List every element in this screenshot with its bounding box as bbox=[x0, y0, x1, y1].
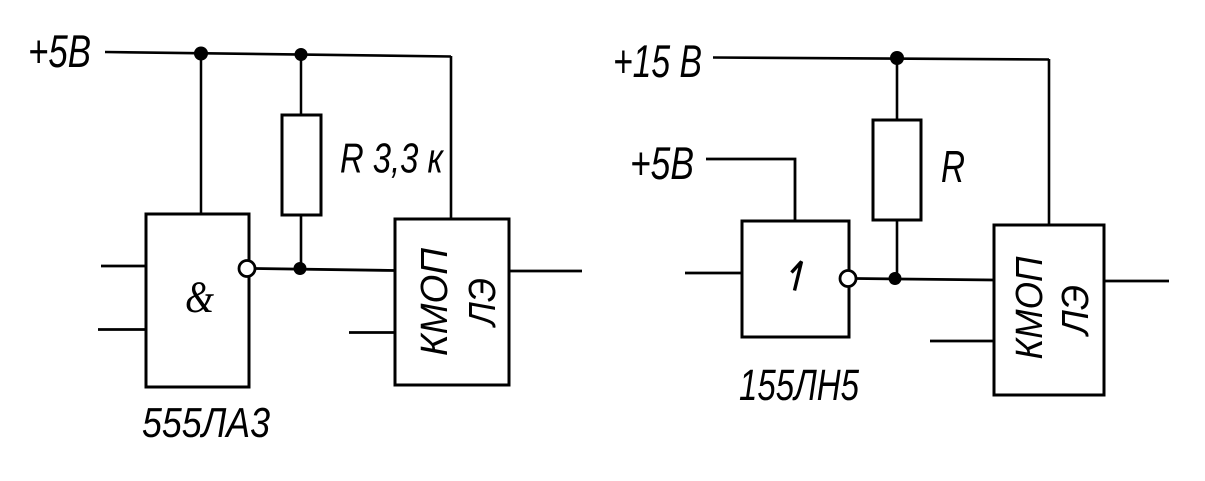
wire: CMOS output (left box) bbox=[510, 270, 582, 273]
wire: +15V rail horizontal bbox=[713, 58, 1049, 60]
CMOS logic element box (right) bbox=[994, 225, 1104, 395]
wire: inverter output to CMOS input (right) bbox=[856, 279, 994, 281]
label КМОП (left box, rotated) bbox=[414, 248, 456, 356]
resistor R body (right) bbox=[873, 120, 921, 220]
part label 555ЛА3 bbox=[142, 399, 270, 446]
svg-text:ЛЭ: ЛЭ bbox=[462, 278, 504, 329]
label ЛЭ (left box, rotated) bbox=[462, 278, 504, 329]
power label +15 V bbox=[613, 35, 702, 87]
gate symbol & bbox=[185, 272, 214, 322]
wire: +15V rail drop to CMOS box top (right) bbox=[1048, 59, 1051, 225]
wire: CMOS second input stub (right box) bbox=[930, 340, 994, 343]
gate symbol 1 bbox=[792, 262, 802, 291]
svg-text:+5В: +5В bbox=[28, 25, 91, 77]
wire: resistor bottom to output node bbox=[300, 215, 303, 268]
junction: rail / gate supply branch bbox=[194, 47, 208, 61]
label ЛЭ (right box, rotated) bbox=[1055, 285, 1097, 338]
svg-text:555ЛА3: 555ЛА3 bbox=[142, 399, 270, 446]
wire: gate input 1 bbox=[101, 265, 146, 268]
value label R (right) bbox=[941, 141, 965, 192]
inverter output inversion bubble bbox=[840, 271, 856, 287]
wire: CMOS second input stub (left box) bbox=[349, 331, 395, 334]
svg-text:&: & bbox=[185, 272, 214, 322]
part label 155ЛН5 bbox=[739, 361, 859, 410]
gate DD2 155ЛН5 inverter body bbox=[742, 221, 849, 337]
gate DD1 555ЛА3 NAND body bbox=[146, 214, 249, 387]
svg-text:155ЛН5: 155ЛН5 bbox=[739, 361, 859, 410]
junction: rail / resistor branch bbox=[295, 48, 308, 61]
wire: +5V to gate supply (horizontal + drop) bbox=[706, 159, 795, 221]
value label R 3,3 к bbox=[340, 134, 445, 181]
CMOS logic element box (left) bbox=[395, 219, 509, 385]
wire: gate output to CMOS input bbox=[255, 269, 395, 271]
wire: +5V rail right drop to CMOS box top bbox=[450, 56, 453, 219]
wire: rail down to gate top bbox=[200, 53, 203, 215]
junction: output node / resistor bottom (right) bbox=[889, 272, 902, 285]
wire: inverter input bbox=[685, 272, 742, 275]
resistor R 3,3k body bbox=[282, 115, 321, 215]
svg-text:КМОП: КМОП bbox=[414, 248, 456, 356]
power label +5V (left) bbox=[28, 25, 91, 77]
wire: +5V rail horizontal bbox=[105, 52, 451, 57]
label КМОП (right box, rotated) bbox=[1009, 256, 1051, 359]
svg-text:R 3,3 к: R 3,3 к bbox=[340, 134, 445, 181]
wire: rail to resistor top (right) bbox=[896, 58, 899, 120]
wire: gate input 2 bbox=[98, 328, 146, 331]
wire: CMOS output (right box) bbox=[1104, 280, 1169, 283]
wire: rail to resistor top bbox=[300, 54, 303, 115]
svg-text:+5В: +5В bbox=[630, 137, 694, 189]
svg-text:КМОП: КМОП bbox=[1009, 256, 1051, 359]
wire: resistor bottom to output node (right) bbox=[896, 220, 899, 278]
gate output inversion bubble bbox=[239, 261, 255, 277]
junction: output node / resistor bottom bbox=[294, 262, 307, 275]
junction: +15V rail / resistor branch bbox=[890, 51, 904, 65]
svg-text:R: R bbox=[941, 141, 965, 192]
svg-text:+15 В: +15 В bbox=[613, 35, 702, 87]
power label +5V (right) bbox=[630, 137, 694, 189]
svg-text:ЛЭ: ЛЭ bbox=[1055, 285, 1097, 338]
